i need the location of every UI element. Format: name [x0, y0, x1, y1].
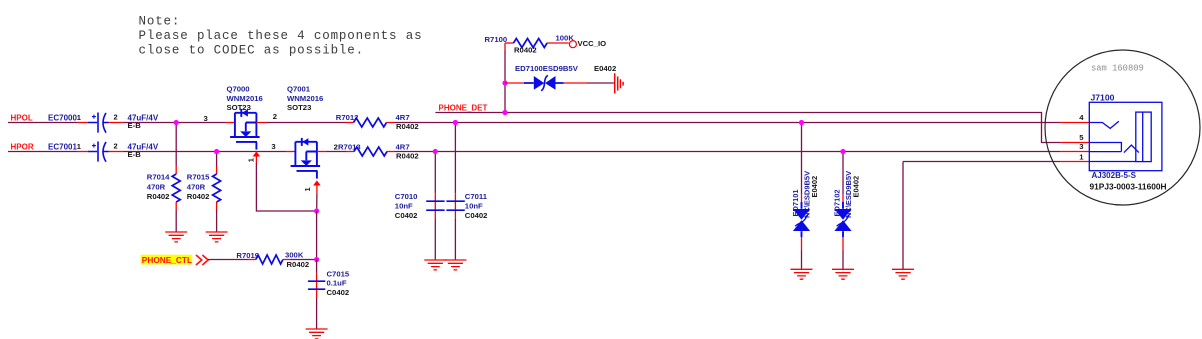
ground (C7011) — [444, 260, 466, 270]
svg-text:R7015: R7015 — [187, 173, 210, 182]
wire HPOL left segment — [8, 122, 77, 124]
wire PHONE_DET — [435, 113, 1060, 143]
node HPOR/C7010 junction — [433, 149, 438, 154]
svg-text:1: 1 — [247, 158, 256, 162]
svg-text:10nF: 10nF — [465, 201, 483, 210]
wire R7015 to ground — [216, 210, 218, 232]
pin 1 red stub — [1060, 161, 1089, 163]
svg-text:WNM2016: WNM2016 — [227, 94, 263, 103]
wire C7010 drop — [434, 152, 436, 194]
svg-text:C7010: C7010 — [395, 192, 418, 201]
diode ED7102 (TVS) — [832, 171, 860, 251]
wire R7019 to node — [291, 259, 317, 261]
wire HPOL mid segment — [123, 122, 226, 124]
svg-text:R0402: R0402 — [147, 192, 170, 201]
svg-text:E0402: E0402 — [851, 176, 860, 198]
wire C7010 to ground — [434, 218, 436, 259]
svg-text:5: 5 — [1079, 133, 1084, 142]
svg-text:C7011: C7011 — [465, 192, 488, 201]
svg-text:R7014: R7014 — [147, 173, 170, 182]
resistor R7012 — [336, 113, 419, 131]
capacitor EC7001 — [48, 141, 159, 161]
svg-text:close to CODEC as possible.: close to CODEC as possible. — [139, 43, 364, 57]
connector J7100 — [1079, 93, 1166, 192]
svg-text:SOT23: SOT23 — [287, 103, 311, 112]
svg-text:WNM2016: WNM2016 — [287, 94, 323, 103]
wire PHONE_CTL to R7019 — [208, 259, 248, 261]
wire HPOR left segment — [8, 151, 77, 153]
wire ED7101 to ground — [801, 251, 803, 270]
net label PHONE_CTL — [141, 255, 193, 266]
svg-text:0.1uF: 0.1uF — [327, 279, 347, 288]
capacitor C7011 — [446, 192, 487, 220]
ground (ED7101) — [791, 269, 813, 279]
svg-text:1: 1 — [1079, 152, 1084, 161]
node PHONE_DET/R7100 junction — [502, 110, 507, 115]
capacitor EC7000 — [48, 112, 159, 132]
svg-text:1: 1 — [77, 142, 81, 151]
note text — [139, 15, 423, 58]
svg-text:R0402: R0402 — [287, 260, 310, 269]
svg-text:470R: 470R — [147, 182, 166, 191]
svg-text:sam 160809: sam 160809 — [1091, 64, 1144, 74]
svg-text:EC7000: EC7000 — [48, 113, 77, 122]
svg-text:VCC_IO: VCC_IO — [578, 39, 607, 48]
pin 3 red stub — [1060, 151, 1089, 153]
resistor R7014 — [147, 166, 180, 210]
svg-text:R0402: R0402 — [514, 46, 537, 55]
wire Q7000 gate bus — [256, 163, 316, 211]
power port VCC_IO — [569, 41, 576, 48]
svg-text:J7100: J7100 — [1091, 93, 1115, 103]
pin 4 red stub — [1060, 122, 1089, 124]
transistor Q7001 — [271, 84, 323, 193]
svg-text:EC7001: EC7001 — [48, 142, 77, 151]
node R7100/ED7100 junction — [502, 80, 507, 85]
capacitor C7015 — [308, 260, 350, 298]
ground (ED7102) — [832, 269, 854, 279]
svg-text:PHONE_DET: PHONE_DET — [439, 104, 488, 113]
node HPOR/R7015 junction — [214, 149, 219, 154]
resistor R7019 — [236, 251, 309, 270]
svg-text:C0402: C0402 — [327, 288, 350, 297]
svg-text:10nF: 10nF — [395, 201, 413, 210]
ground (R7015) — [206, 232, 228, 242]
wire Q7001 pin2 to R7013 — [317, 151, 327, 153]
svg-text:E0402: E0402 — [810, 176, 819, 198]
node HPOL/R7014 junction — [174, 120, 179, 125]
svg-text:HPOL: HPOL — [11, 113, 33, 122]
svg-text:PHONE_CTL: PHONE_CTL — [142, 255, 192, 265]
diode ED7101 (TVS) — [791, 171, 819, 251]
resistor R7015 — [187, 166, 221, 210]
wire C7011 to ground — [454, 218, 456, 259]
svg-text:4R7: 4R7 — [396, 142, 410, 151]
wire ED7102 to ground — [842, 251, 844, 270]
svg-text:Please place these 4 component: Please place these 4 components as — [139, 29, 423, 43]
wire Q7000 pin2 to R7012 — [256, 122, 266, 124]
ground (R7014) — [165, 232, 187, 242]
wire C7011 drop — [454, 123, 456, 194]
svg-text:300K: 300K — [285, 251, 304, 260]
svg-text:91PJ3-0003-11600H: 91PJ3-0003-11600H — [1090, 181, 1167, 191]
svg-text:R0402: R0402 — [187, 192, 210, 201]
node HPOL/C7011 junction — [453, 120, 458, 125]
node HPOL/ED7101 junction — [799, 120, 804, 125]
svg-text:Note:: Note: — [139, 15, 181, 29]
wire Q7001 gate drop — [316, 193, 318, 211]
hand-drawn circle annotation — [1045, 50, 1200, 205]
wire R7014 drop — [175, 123, 177, 167]
capacitor C7010 — [395, 192, 445, 220]
svg-text:R7100: R7100 — [485, 35, 508, 44]
svg-text:C7015: C7015 — [327, 270, 350, 279]
ground (sleeve) — [892, 269, 914, 279]
diode ED7100 (TVS) — [505, 64, 616, 91]
ground (C7010) — [424, 260, 446, 270]
wire HPOR mid segment — [123, 151, 287, 153]
wire HPOR long segment to connector — [395, 151, 1060, 153]
svg-text:3: 3 — [1079, 142, 1083, 151]
node HPOR/ED7102 junction — [840, 149, 845, 154]
svg-text:1: 1 — [303, 187, 312, 191]
off-page connector chevrons — [196, 255, 208, 265]
wire sleeve drop to ground — [902, 162, 904, 270]
wire R7014 to ground — [175, 210, 177, 232]
wire gate bus to PHONE_CTL node — [316, 211, 318, 260]
node R7019/C7015 junction — [314, 257, 319, 262]
svg-text:470R: 470R — [187, 182, 206, 191]
wire C7015 to ground — [316, 297, 318, 328]
svg-text:3: 3 — [271, 142, 275, 151]
transistor Q7000 — [204, 84, 278, 163]
wire R7100 drop to PHONE_DET — [504, 43, 506, 50]
svg-text:R0402: R0402 — [396, 151, 419, 160]
svg-text:HPOR: HPOR — [11, 142, 34, 151]
svg-text:E0402: E0402 — [594, 64, 616, 73]
svg-text:4: 4 — [1079, 113, 1084, 122]
svg-text:ED7100ESD9B5V: ED7100ESD9B5V — [515, 64, 579, 73]
svg-text:Q7000: Q7000 — [227, 84, 250, 93]
wire sleeve pin1 — [903, 161, 1060, 163]
svg-text:AJ302B-5-S: AJ302B-5-S — [1092, 171, 1137, 180]
svg-text:2: 2 — [114, 112, 118, 121]
svg-text:1: 1 — [77, 113, 81, 122]
wire ED7100 to earth — [587, 82, 614, 84]
node gate bus junction — [314, 208, 319, 213]
svg-text:3: 3 — [204, 114, 208, 123]
svg-text:Q7001: Q7001 — [287, 84, 311, 93]
svg-text:C0402: C0402 — [395, 211, 418, 220]
svg-text:2: 2 — [114, 141, 118, 150]
resistor R7013 — [334, 142, 419, 160]
ground earth (ED7100) — [615, 73, 623, 93]
resistor R7100 — [485, 34, 575, 55]
pin 5 red stub — [1060, 142, 1089, 144]
svg-text:2: 2 — [273, 112, 277, 121]
wire ED7102 drop — [842, 152, 844, 195]
wire ED7101 drop — [801, 123, 803, 195]
wire R7015 drop — [216, 152, 218, 167]
ground (C7015) — [306, 329, 328, 339]
wire HPOL long segment to connector — [395, 122, 1061, 124]
svg-text:C0402: C0402 — [465, 211, 488, 220]
